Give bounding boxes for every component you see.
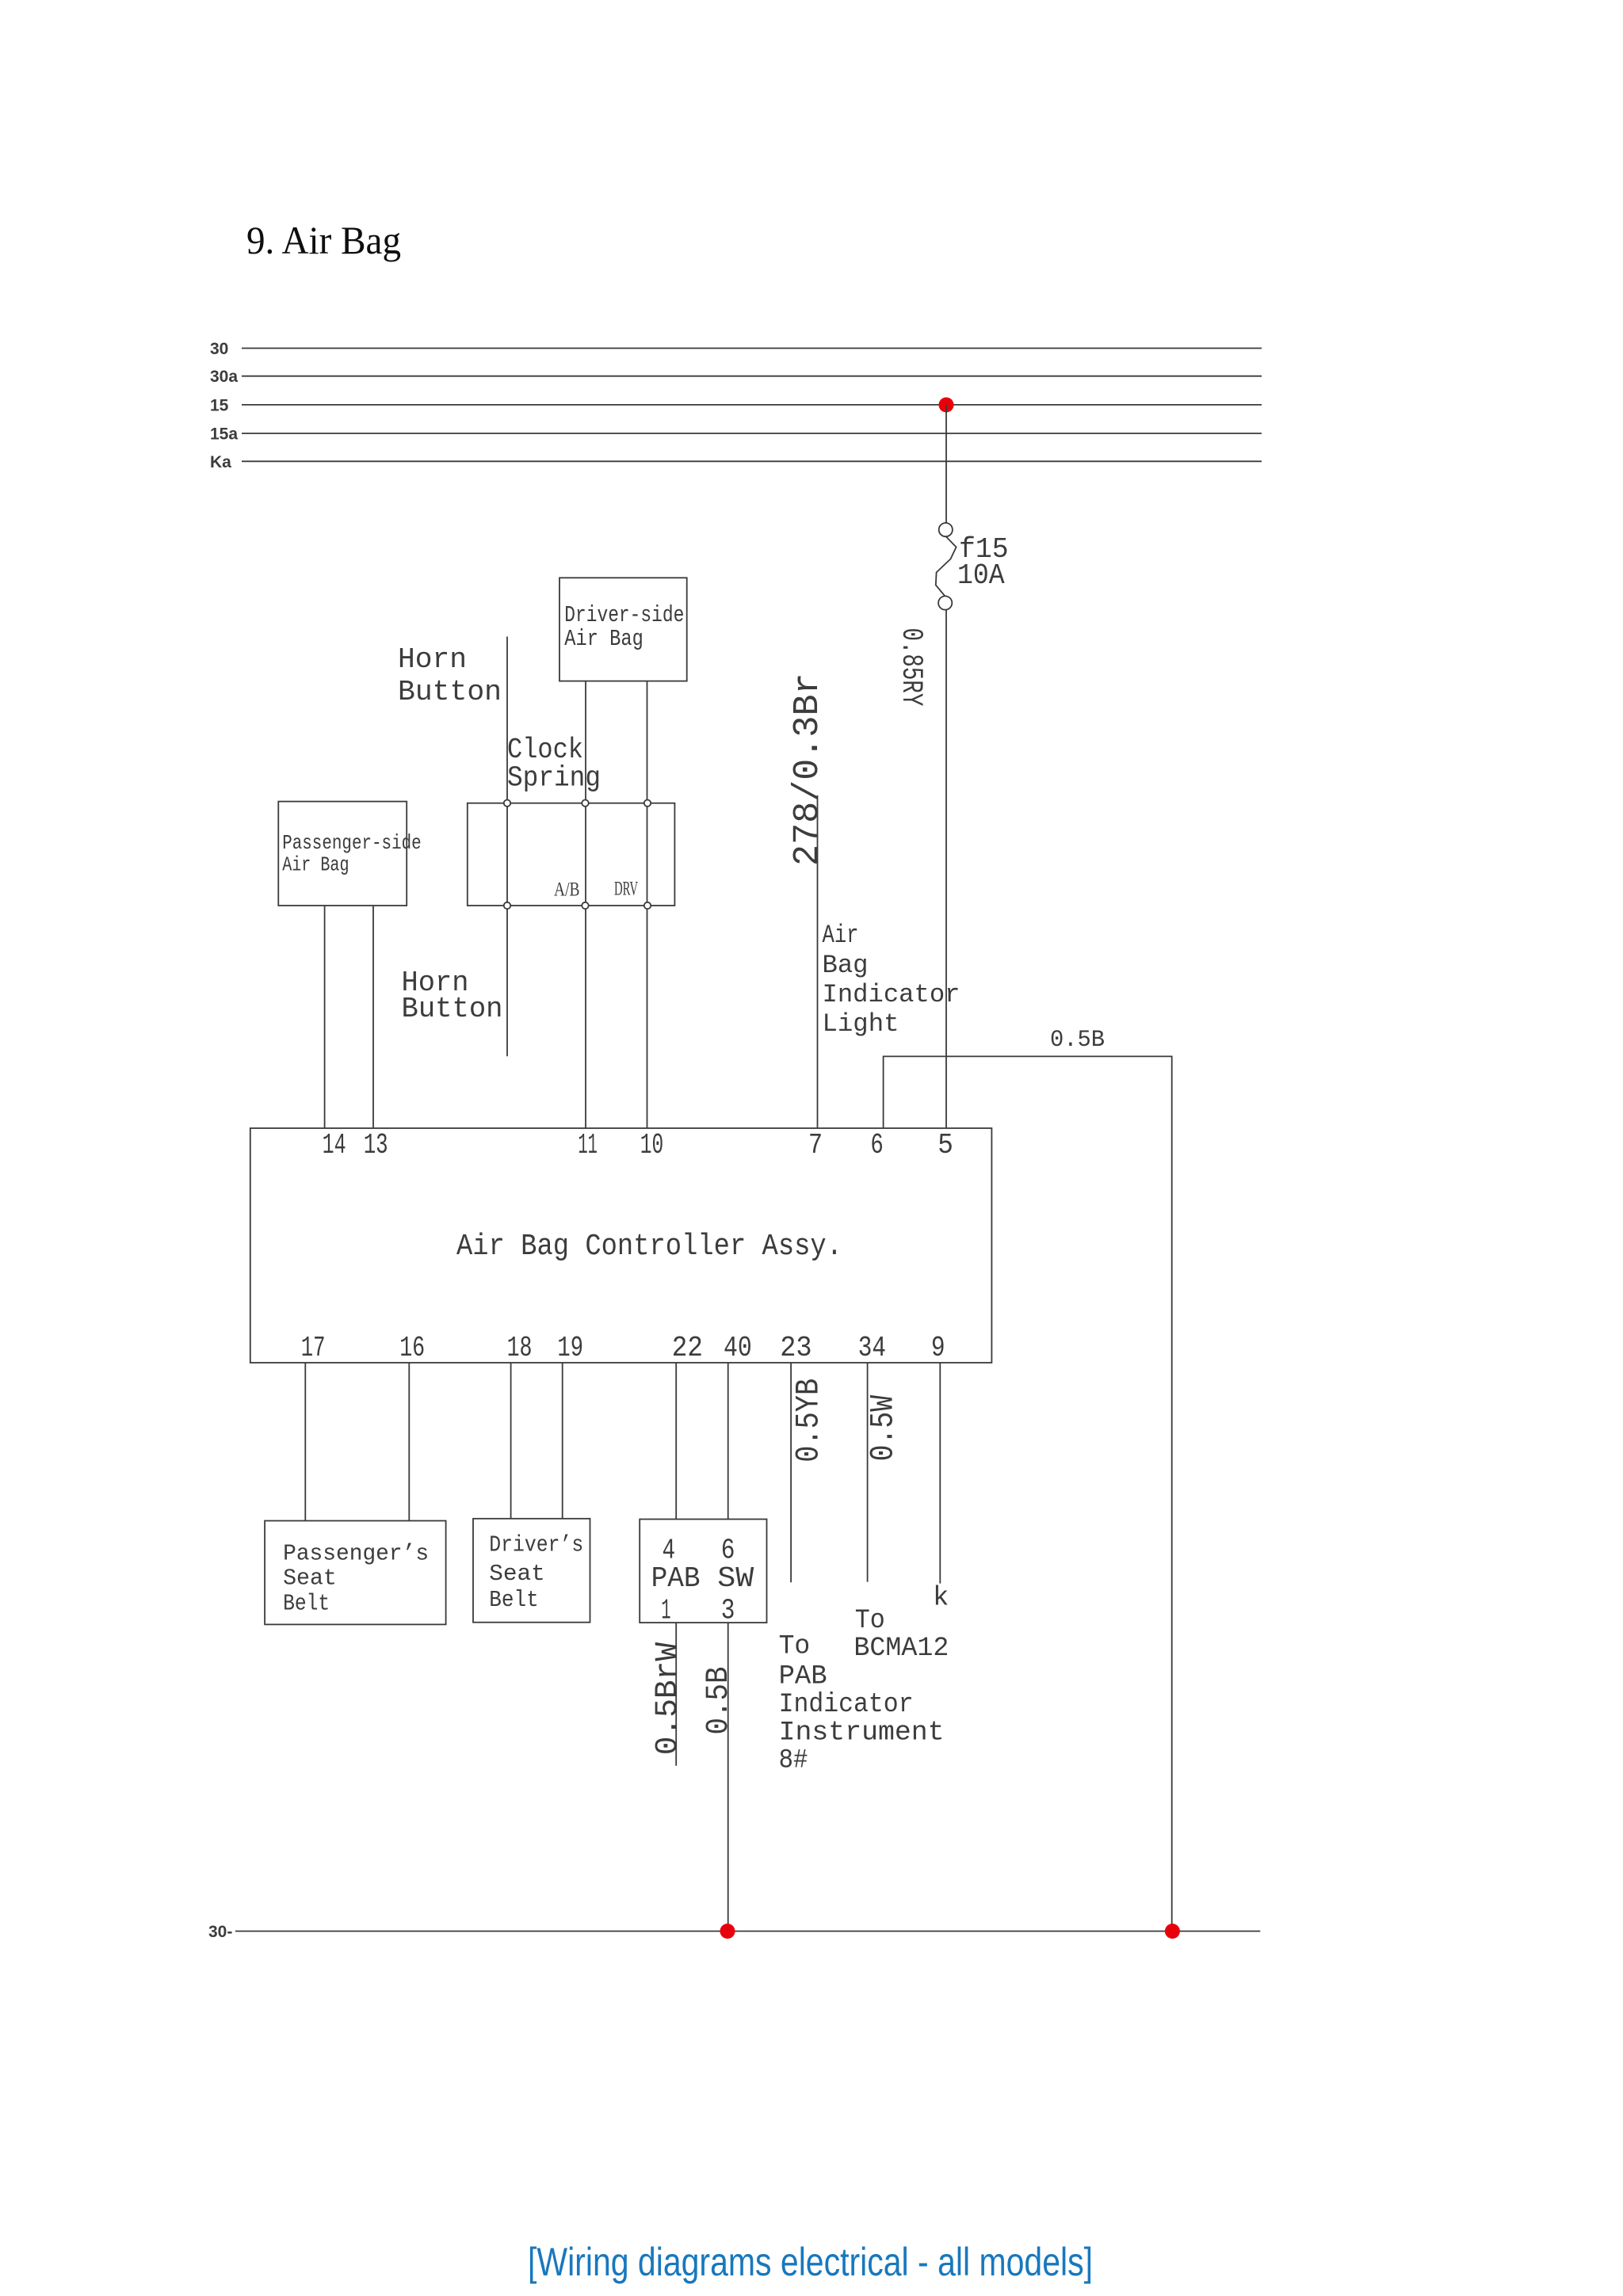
svg-text:DRV: DRV [614, 879, 638, 900]
svg-text:40: 40 [724, 1332, 752, 1364]
fuse f15 10A symbol [936, 523, 957, 610]
wire pin40 [727, 1363, 729, 1520]
svg-text:9. Air Bag: 9. Air Bag [246, 218, 401, 262]
svg-text:15a: 15a [210, 425, 238, 444]
passenger seat belt box [265, 1521, 445, 1625]
svg-text:Driver’s: Driver’s [489, 1531, 583, 1558]
svg-text:0.5BrW: 0.5BrW [651, 1642, 686, 1755]
wire pin34 [867, 1363, 869, 1582]
wire 0.5B ground loop [884, 1056, 1172, 1931]
svg-text:[Wiring diagrams electrical -: [Wiring diagrams electrical - all models… [528, 2240, 1093, 2284]
svg-text:14: 14 [323, 1129, 346, 1161]
svg-text:PAB: PAB [651, 1562, 701, 1595]
svg-text:k: k [933, 1584, 949, 1614]
svg-text:22: 22 [672, 1332, 703, 1364]
svg-text:6: 6 [870, 1129, 883, 1161]
wire pin9 [939, 1363, 941, 1584]
svg-text:30: 30 [210, 340, 228, 358]
svg-text:0.5B: 0.5B [701, 1667, 737, 1735]
bus 30- line [235, 1931, 1260, 1932]
svg-text:34: 34 [858, 1332, 886, 1364]
svg-text:Air: Air [823, 921, 859, 950]
svg-text:A/B: A/B [554, 879, 580, 901]
clock spring box [468, 803, 675, 906]
svg-text:Bag: Bag [823, 951, 869, 980]
clock spring terminal circles top [504, 800, 510, 807]
svg-text:23: 23 [780, 1332, 811, 1364]
clock spring terminal circles bottom [504, 902, 510, 909]
svg-text:Air Bag: Air Bag [564, 626, 643, 652]
svg-text:Button: Button [398, 676, 502, 708]
wire pin17 [304, 1363, 306, 1521]
wire fuse to controller pin 5 [945, 610, 947, 1128]
wire pin7 air bag indicator [817, 795, 819, 1128]
wire pin18 [510, 1363, 512, 1519]
svg-text:BCMA12: BCMA12 [854, 1634, 949, 1664]
wire driver airbag pin10 [647, 681, 648, 1128]
svg-text:Instrument: Instrument [779, 1718, 945, 1748]
svg-text:1: 1 [661, 1595, 670, 1627]
svg-text:11: 11 [578, 1129, 598, 1161]
svg-text:Indicator: Indicator [823, 980, 960, 1009]
svg-text:10: 10 [640, 1129, 663, 1161]
bus Ka line [242, 460, 1262, 462]
svg-text:Belt: Belt [283, 1590, 330, 1616]
driver-side air bag box [559, 578, 687, 681]
wire horn button [506, 637, 508, 1057]
svg-text:30a: 30a [210, 368, 238, 386]
bus 30 line [242, 348, 1262, 349]
svg-text:SW: SW [717, 1562, 754, 1595]
wire PAB SW pin1 [675, 1623, 677, 1766]
svg-text:Passenger-side: Passenger-side [282, 831, 422, 855]
wire passenger airbag pin14 [324, 906, 326, 1128]
wire passenger airbag pin13 [372, 906, 374, 1128]
svg-text:16: 16 [399, 1332, 425, 1364]
svg-text:Indicator: Indicator [779, 1690, 914, 1720]
wire bus15 to fuse [945, 405, 947, 523]
wire PAB SW pin3 to ground [727, 1623, 729, 1931]
svg-text:Air Bag Controller Assy.: Air Bag Controller Assy. [456, 1230, 842, 1264]
svg-text:0.5YB: 0.5YB [790, 1379, 828, 1463]
svg-text:9: 9 [931, 1332, 945, 1364]
wire pin23 [790, 1363, 792, 1582]
svg-text:Button: Button [402, 993, 503, 1025]
PAB SW box [640, 1520, 766, 1623]
junction dot 0.5B ground [1165, 1924, 1180, 1939]
svg-text:18: 18 [507, 1332, 533, 1364]
svg-text:Spring: Spring [507, 762, 601, 795]
wire driver airbag pin11 [585, 681, 586, 1128]
svg-text:Belt: Belt [489, 1587, 538, 1613]
svg-text:0.85RY: 0.85RY [894, 628, 927, 707]
svg-text:0.5B: 0.5B [1050, 1027, 1105, 1054]
svg-text:To: To [855, 1606, 885, 1636]
svg-text:10A: 10A [957, 559, 1005, 592]
svg-text:Seat: Seat [283, 1566, 337, 1592]
svg-text:Driver-side: Driver-side [564, 602, 684, 628]
svg-text:5: 5 [938, 1129, 953, 1161]
bus 30a line [242, 376, 1262, 377]
svg-text:17: 17 [301, 1332, 326, 1364]
svg-text:19: 19 [557, 1332, 583, 1364]
svg-text:Seat: Seat [489, 1561, 545, 1587]
svg-text:7: 7 [808, 1129, 823, 1161]
svg-text:Light: Light [823, 1009, 899, 1039]
driver seat belt box [473, 1519, 590, 1623]
air bag controller assy box [250, 1128, 992, 1363]
wire pin16 [408, 1363, 410, 1521]
bus 15a line [242, 433, 1262, 434]
svg-text:13: 13 [364, 1129, 388, 1161]
svg-text:3: 3 [721, 1595, 735, 1627]
svg-text:Ka: Ka [210, 453, 231, 471]
passenger-side air bag box [278, 802, 407, 906]
svg-text:15: 15 [210, 396, 229, 414]
junction dot on bus 15 [939, 398, 954, 413]
svg-text:8#: 8# [779, 1746, 808, 1776]
svg-text:278/0.3Br: 278/0.3Br [788, 673, 828, 866]
bus 15 line [242, 404, 1262, 406]
svg-text:0.5W: 0.5W [865, 1394, 903, 1461]
svg-text:30-: 30- [208, 1923, 232, 1941]
svg-text:Horn: Horn [398, 643, 467, 676]
svg-text:Air Bag: Air Bag [282, 853, 349, 877]
wire pin19 [562, 1363, 563, 1519]
svg-text:PAB: PAB [779, 1662, 827, 1692]
junction dot PAB ground [720, 1924, 735, 1939]
svg-text:To: To [779, 1631, 811, 1661]
svg-text:Passenger’s: Passenger’s [283, 1540, 429, 1566]
wire pin22 [675, 1363, 677, 1520]
